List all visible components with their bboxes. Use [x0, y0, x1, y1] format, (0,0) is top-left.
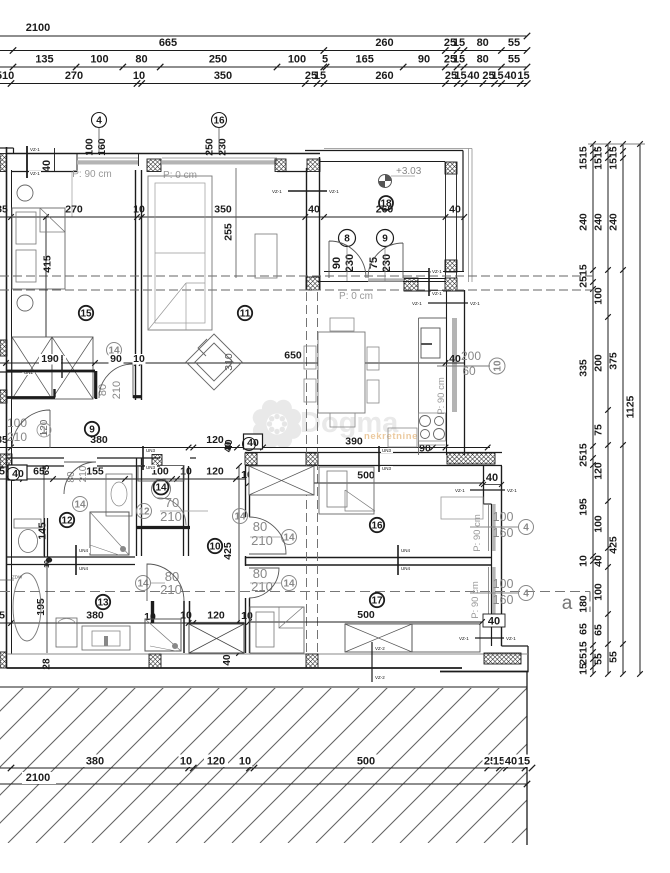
svg-text:P: 90 cm: P: 90 cm [436, 377, 447, 415]
svg-text:10: 10 [239, 756, 251, 768]
svg-text:UN3: UN3 [382, 466, 391, 471]
svg-text:10: 10 [180, 610, 192, 622]
svg-text:15: 15 [518, 756, 530, 768]
crosshatch 16-top-mid [306, 453, 318, 465]
svg-text:10: 10 [241, 610, 253, 622]
crosshatch bottom 1 [149, 654, 161, 668]
door mark 14 hall-16 upper [282, 530, 297, 545]
svg-text:11: 11 [240, 309, 251, 320]
door mark 14 room12 [73, 497, 88, 512]
LN1 label wardrobe [54, 356, 66, 361]
svg-text:210: 210 [78, 465, 89, 482]
wall crosshatch top mid3 [307, 159, 320, 172]
svg-text:40: 40 [504, 70, 516, 82]
terrace right wall band [445, 162, 447, 278]
svg-text:260: 260 [375, 70, 393, 82]
entry door arc [12, 410, 50, 448]
svg-text:390: 390 [345, 436, 363, 448]
svg-text:55: 55 [608, 651, 620, 663]
svg-text:1515: 1515 [593, 146, 605, 170]
VZ-1 marker terrace-left [288, 190, 327, 192]
svg-text:VZ-1: VZ-1 [432, 269, 442, 274]
outer top wall (rooms 15/11) [7, 153, 321, 155]
svg-text:4: 4 [523, 589, 529, 600]
dim col top witness line [588, 143, 645, 145]
svg-text:5: 5 [322, 54, 328, 66]
hall-16 lower door arc [249, 568, 279, 598]
svg-text:1: 1 [41, 425, 46, 435]
room11 tv cabinet [255, 234, 277, 278]
svg-text:500: 500 [357, 756, 375, 768]
boxed door mark 40 left [8, 465, 27, 480]
svg-text:15: 15 [80, 309, 92, 320]
svg-text:190: 190 [41, 353, 59, 365]
svg-text:17: 17 [371, 596, 383, 607]
room 15 [79, 306, 93, 320]
svg-text:VZ-1: VZ-1 [432, 291, 442, 296]
benchmark +3.03 [379, 175, 416, 188]
right wall rooms 16/17 inner segments [483, 466, 485, 504]
room15 bed [12, 208, 65, 289]
outer wall left [6, 147, 8, 668]
svg-text:8: 8 [344, 234, 350, 245]
top wall inner edge segments [12, 171, 78, 173]
svg-text:+3.03: +3.03 [396, 166, 422, 177]
svg-text:1515: 1515 [608, 146, 620, 170]
svg-text:5: 5 [0, 610, 5, 622]
hall-13 wall stub [183, 601, 185, 653]
svg-text:100: 100 [288, 54, 306, 66]
VZ-1 marker top-left [26, 146, 28, 178]
wall crosshatch terrace-left bottom [306, 277, 320, 290]
door mark 8 terrace [339, 230, 356, 247]
svg-text:14: 14 [74, 500, 86, 511]
svg-text:250: 250 [204, 138, 216, 156]
svg-text:85: 85 [0, 204, 8, 216]
svg-text:10: 10 [578, 555, 590, 567]
svg-text:10: 10 [180, 756, 192, 768]
door mark 10 kitchen [489, 358, 505, 374]
room13 vanity [82, 626, 130, 650]
UN4 labels rooms16-17 [397, 545, 399, 575]
svg-text:120: 120 [206, 466, 224, 478]
svg-text:2515: 2515 [578, 443, 590, 467]
svg-text:VZ-1: VZ-1 [30, 171, 40, 176]
svg-text:250: 250 [209, 54, 227, 66]
terrace right outer edge [462, 151, 464, 273]
svg-text:100: 100 [493, 577, 514, 591]
dim 425 vertical hall [238, 466, 240, 653]
svg-text:40: 40 [222, 654, 233, 666]
svg-text:210: 210 [251, 579, 273, 594]
wall between rooms 15 and 11 [135, 170, 137, 400]
svg-text:15: 15 [453, 54, 465, 66]
vertical dimension line col 4 (total 1125) [639, 144, 641, 674]
svg-text:230: 230 [344, 254, 356, 272]
VZ-2 marker bottom [371, 642, 373, 682]
svg-text:40: 40 [449, 353, 461, 365]
svg-text:VZ-1: VZ-1 [470, 301, 480, 306]
svg-text:80: 80 [477, 37, 489, 49]
boxed door mark 40 at hall [244, 434, 263, 449]
svg-text:15: 15 [491, 70, 503, 82]
svg-text:335: 335 [578, 359, 590, 377]
interior dim 500 room17 [249, 621, 482, 623]
svg-text:10: 10 [493, 360, 504, 372]
bottom-right corner step [502, 645, 529, 647]
svg-text:UN3: UN3 [146, 465, 155, 470]
hall-16 upper door arc [249, 517, 286, 554]
closet door mark 14 [107, 343, 122, 358]
room15 nightstand circles [17, 185, 33, 201]
room13 shower [145, 619, 181, 651]
svg-text:100: 100 [593, 515, 605, 533]
dim 145 vertical room12 [43, 466, 45, 556]
svg-text:28: 28 [42, 658, 53, 670]
room 16 [370, 518, 384, 532]
kitchen top wall crosshatch right [445, 278, 457, 291]
crosshatch 16-top-right band [447, 453, 495, 464]
interior dim line y447 (380,120,40) left part [0, 447, 490, 449]
svg-text:nekretnine: nekretnine [364, 431, 418, 442]
svg-text:UN4: UN4 [79, 566, 88, 571]
terrace outline top [305, 150, 463, 152]
dimension chain row 1 (2100) [0, 35, 527, 37]
kitchen niche dim 40 200/60 [437, 365, 490, 367]
right wall rooms 16/17 outer [501, 466, 503, 646]
room15 wardrobe [12, 337, 52, 399]
window mark 16 top [212, 113, 227, 128]
svg-text:80: 80 [135, 54, 147, 66]
svg-text:55: 55 [508, 54, 520, 66]
svg-text:VZ-1: VZ-1 [507, 488, 517, 493]
VZ-1 label terrace corner [429, 269, 443, 275]
svg-text:P: 90 cm: P: 90 cm [72, 169, 111, 180]
svg-text:60: 60 [462, 364, 476, 378]
closet door stub [133, 396, 141, 399]
svg-text:15: 15 [493, 756, 505, 768]
terrace door 8 arc [329, 241, 366, 278]
bottom outer wall [7, 653, 529, 655]
VZ-1 marker room17-bottom [475, 637, 504, 639]
hall shaft crossbox [189, 624, 244, 653]
VZ-1 marker kitchen-top-2 [428, 302, 468, 304]
terrace door glazing [368, 278, 403, 281]
svg-text:P: 0 cm: P: 0 cm [163, 170, 197, 181]
UN4 labels hall left [75, 545, 77, 575]
terrace bottom edge [324, 271, 464, 273]
door mark 14 hall-16 lower [282, 576, 297, 591]
wall 40 dim at left [54, 148, 56, 172]
dim overlay 190/90/10 over wardrobe [0, 362, 142, 364]
shaft top edge [190, 622, 244, 624]
svg-text:425: 425 [608, 536, 620, 554]
room 9 / rooms 12-14 divider wall [7, 457, 65, 459]
wall stub below room13 door [151, 601, 154, 623]
svg-text:40: 40 [41, 160, 53, 172]
svg-text:ZDW: ZDW [12, 575, 23, 580]
svg-text:10: 10 [133, 353, 145, 365]
svg-text:80: 80 [253, 519, 267, 534]
kitchen top wall crosshatch left [404, 278, 418, 291]
svg-text:UN3: UN3 [146, 448, 155, 453]
crosshatch bottom right band [484, 653, 521, 664]
svg-text:VZ-1: VZ-1 [455, 488, 465, 493]
svg-text:14: 14 [283, 533, 295, 544]
svg-text:10: 10 [209, 542, 221, 553]
wall crosshatch left mid [0, 340, 7, 356]
svg-text:40: 40 [486, 472, 498, 484]
UN3 labels room14 [142, 446, 144, 470]
svg-text:210: 210 [7, 430, 27, 444]
room17 window glazing [492, 567, 496, 615]
room16 wardrobe [249, 466, 314, 495]
svg-text:145: 145 [37, 522, 49, 540]
svg-text:UN4: UN4 [401, 566, 410, 571]
svg-text:65: 65 [41, 464, 52, 475]
section line a-a [0, 591, 590, 593]
svg-text:650: 650 [284, 350, 302, 362]
room 12 [60, 513, 74, 527]
crosshatch 16-top-left [245, 453, 257, 465]
svg-text:90: 90 [419, 443, 431, 455]
svg-text:4: 4 [96, 116, 102, 127]
room 14 wc [154, 480, 169, 495]
svg-text:100: 100 [90, 54, 108, 66]
svg-text:510: 510 [0, 70, 14, 82]
interior dim line y623 (380,10,120) room13 [0, 622, 245, 624]
interior dim line y479 (65,155,100,10,120) [0, 478, 245, 480]
svg-text:15: 15 [453, 37, 465, 49]
rooms16 block left wall [245, 466, 247, 517]
room 18 terrace [379, 196, 393, 210]
kitchen window glazing [452, 318, 457, 412]
interior dim line y363 (190,90,10,650) [142, 362, 465, 364]
svg-text:UN4: UN4 [401, 548, 410, 553]
room 9 hall [85, 422, 99, 436]
hinge dot 12/13 wall [46, 557, 52, 562]
svg-text:13: 13 [97, 598, 109, 609]
room17 bed [250, 607, 304, 653]
room12 door arc [64, 462, 96, 494]
svg-text:14: 14 [155, 483, 167, 494]
svg-text:15: 15 [517, 70, 529, 82]
room13 bathtub [13, 573, 41, 641]
svg-text:15: 15 [578, 663, 590, 675]
room14 door arc [157, 498, 186, 525]
wall crosshatch top-left [0, 154, 7, 172]
dim 255 vertical room11 [235, 168, 237, 278]
room12 sink [106, 474, 132, 516]
svg-text:255: 255 [223, 223, 235, 241]
svg-text:40: 40 [224, 439, 235, 451]
UN1 label left wall [0, 371, 22, 373]
ground hatch area [0, 687, 668, 843]
room 17 [370, 593, 384, 607]
svg-text:40: 40 [467, 70, 479, 82]
svg-text:270: 270 [65, 70, 83, 82]
section dashed line pair upper [0, 275, 593, 277]
closet door arc room15 [99, 364, 133, 398]
hall-13 door arc [147, 564, 184, 601]
bottom dimension line (380,10,120,10,500,25,15,40,15) [0, 767, 527, 769]
dimension chain row 2 (665,260,25,15,80,55) [0, 50, 527, 52]
svg-text:15: 15 [454, 70, 466, 82]
svg-text:UN3: UN3 [382, 448, 391, 453]
dimension chain row 3 (135,100,80,250,100,5,165,90,25,15,80,55) [0, 66, 527, 68]
door mark 9 terrace [377, 230, 394, 247]
svg-text:100: 100 [593, 583, 605, 601]
svg-text:200: 200 [593, 354, 605, 372]
svg-text:135: 135 [35, 54, 53, 66]
svg-text:500: 500 [357, 609, 375, 621]
svg-text:16: 16 [213, 116, 225, 127]
closet wall overlay (over wardrobe) [7, 370, 96, 373]
svg-text:240: 240 [608, 213, 620, 231]
wall crosshatch top mid2 [275, 159, 286, 172]
svg-text:12: 12 [138, 507, 150, 518]
svg-text:40: 40 [593, 555, 605, 567]
svg-text:90: 90 [331, 257, 343, 269]
svg-text:1125: 1125 [625, 395, 637, 418]
vertical dimension line col 3 [622, 144, 624, 674]
svg-text:10: 10 [44, 560, 51, 568]
svg-text:415: 415 [42, 255, 54, 273]
rooms 12/13 divider wall [7, 556, 136, 558]
kitchen top wall [404, 278, 446, 280]
room17 wardrobe [345, 624, 412, 652]
svg-text:VZ-1: VZ-1 [506, 636, 516, 641]
interior dim line y217 (270,10,350,40,260,40) [0, 216, 465, 218]
boxed 40 at window17 bottom [483, 614, 505, 627]
room14 bottom wall [137, 526, 190, 529]
terrace door 9 arc [368, 243, 403, 278]
vertical dimension line col 2 [607, 144, 609, 674]
svg-text:260: 260 [375, 37, 393, 49]
VZ-1 marker room16-top [470, 489, 505, 491]
svg-text:10: 10 [133, 204, 145, 216]
kitchen sink unit [388, 428, 417, 447]
svg-text:2100: 2100 [26, 22, 50, 34]
svg-text:120: 120 [593, 462, 605, 480]
hatch top border [0, 686, 527, 688]
door mark 12 [137, 504, 152, 519]
window W2 terrace door glazing [162, 157, 277, 159]
UN3 labels room16 top [378, 446, 380, 472]
svg-text:9: 9 [89, 425, 95, 436]
svg-text:665: 665 [159, 37, 177, 49]
room14 toilet [152, 479, 171, 499]
terrace crosshatch bottom-right [445, 260, 457, 272]
fridge [421, 328, 440, 358]
svg-text:210: 210 [160, 582, 182, 597]
dim 415 vertical room15 [45, 217, 47, 363]
rooms16 block top wall [245, 452, 502, 454]
room 14 walls [136, 458, 138, 556]
svg-text:160: 160 [96, 138, 108, 156]
svg-text:425: 425 [222, 542, 234, 560]
svg-text:P: 90 cm: P: 90 cm [472, 514, 483, 552]
wall crosshatch top mid1 [147, 159, 161, 172]
svg-text:15: 15 [314, 70, 326, 82]
outer wall top-left step [0, 147, 14, 149]
svg-text:14: 14 [283, 579, 295, 590]
dining table [318, 332, 365, 413]
svg-text:14: 14 [234, 512, 246, 523]
svg-text:40: 40 [308, 204, 320, 216]
svg-text:UN4: UN4 [79, 548, 88, 553]
terrace crosshatch top-right [445, 162, 457, 174]
svg-text:120: 120 [206, 434, 224, 446]
svg-text:100: 100 [593, 287, 605, 305]
crosshatch above room14 [152, 455, 162, 466]
svg-text:5: 5 [0, 466, 5, 478]
svg-text:230: 230 [217, 138, 229, 156]
svg-text:VZ-1: VZ-1 [30, 147, 40, 152]
svg-text:55: 55 [508, 37, 520, 49]
svg-text:240: 240 [578, 213, 590, 231]
closet bottom wall piece [7, 396, 56, 399]
room14 counter [138, 466, 184, 482]
svg-text:VZ-1: VZ-1 [412, 301, 422, 306]
svg-text:40: 40 [449, 204, 461, 216]
svg-text:55: 55 [593, 653, 605, 665]
svg-text:12: 12 [61, 516, 73, 527]
svg-text:500: 500 [357, 470, 375, 482]
svg-text:160: 160 [493, 526, 514, 540]
svg-text:VZ-1: VZ-1 [459, 636, 469, 641]
svg-text:VZ-1: VZ-1 [272, 189, 282, 194]
svg-text:120: 120 [207, 756, 225, 768]
wall between living and terrace [306, 168, 308, 290]
crosshatch bottom left corner [0, 652, 7, 668]
svg-text:350: 350 [214, 70, 232, 82]
svg-text:80: 80 [477, 54, 489, 66]
svg-text:40: 40 [488, 616, 500, 628]
room13 washing machine [56, 618, 77, 647]
kitchen counter [418, 318, 420, 455]
room12 shower [90, 512, 129, 555]
svg-text:40: 40 [505, 756, 517, 768]
svg-text:10: 10 [180, 466, 192, 478]
dim 195 vertical room13 [46, 562, 48, 653]
svg-text:375: 375 [608, 352, 620, 370]
VZ-1 marker kitchen-top [428, 268, 430, 296]
door mark 14 right-mid [233, 509, 248, 524]
interior dim 500 room16 [249, 482, 482, 484]
wall crosshatch left mid2 [0, 390, 7, 403]
vertical dashed grid pair [306, 292, 308, 654]
svg-text:9: 9 [382, 234, 388, 245]
svg-text:16: 16 [371, 521, 383, 532]
kitchen right wall with window [446, 290, 448, 455]
svg-text:VZ-2: VZ-2 [375, 675, 385, 680]
rooms 16/17 divider wall [245, 557, 492, 559]
svg-text:240: 240 [593, 213, 605, 231]
entry door mark circle [37, 423, 51, 437]
svg-text:75: 75 [593, 424, 605, 436]
crosshatch bottom 2 [306, 654, 318, 668]
svg-text:90: 90 [110, 353, 122, 365]
svg-text:VZ-1: VZ-1 [329, 189, 339, 194]
wc room12 partition [44, 518, 46, 557]
wall crosshatch left room12 corner [0, 454, 12, 467]
closet wall room 15 [7, 370, 96, 373]
room 10 hall [208, 539, 222, 553]
svg-text:210: 210 [111, 381, 123, 399]
svg-text:2515: 2515 [578, 641, 590, 665]
svg-text:a: a [562, 593, 573, 614]
